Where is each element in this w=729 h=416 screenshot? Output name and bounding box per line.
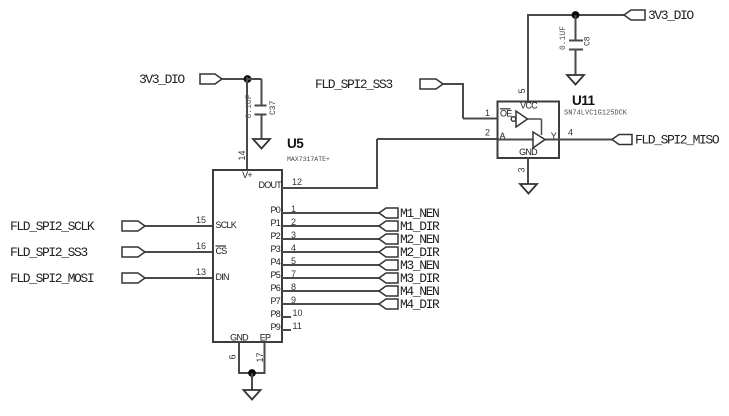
power tag 3V3_DIO (left) [139,72,222,87]
wire P4 to M3_NEN [282,264,379,266]
svg-text:SCLK: SCLK [216,220,237,230]
capacitor C37 0.1UF [245,94,278,118]
svg-text:0.1UF: 0.1UF [245,94,254,118]
svg-text:EP: EP [260,333,271,343]
wire VCC rail to 3V3_DIO tag [527,14,624,16]
wire junction to C37 [246,79,262,105]
wire 3V3_DIO tag to junction [222,78,248,80]
net tag FLD_SPI2_MISO [612,133,720,148]
node junction GND/EP [248,369,256,377]
wire FLD_SPI2_SS3 to U5 [145,251,213,253]
svg-text:U5: U5 [287,136,304,151]
svg-text:GND: GND [230,333,249,343]
wire P8 stub [282,316,291,318]
ground below C37 [253,139,270,149]
svg-text:U11: U11 [572,93,596,108]
net tag FLD_SPI2_SCLK [10,219,145,234]
svg-text:FLD_SPI2_MOSI: FLD_SPI2_MOSI [10,271,94,286]
ground below U11 [520,184,537,194]
svg-text:P6: P6 [270,283,280,293]
svg-text:9: 9 [291,295,296,305]
svg-text:15: 15 [196,215,206,225]
svg-text:2: 2 [485,128,490,138]
svg-text:FLD_SPI2_MISO: FLD_SPI2_MISO [635,133,720,148]
pin name OE (active low) [500,109,512,119]
svg-text:3V3_DIO: 3V3_DIO [139,72,185,87]
svg-text:17: 17 [255,352,265,362]
svg-text:VCC: VCC [520,101,538,111]
svg-text:MAX7317ATE+: MAX7317ATE+ [287,156,330,163]
svg-text:SN74LVC1G125DCK: SN74LVC1G125DCK [564,110,628,118]
wire GND pin 6 down [238,342,240,374]
svg-text:C37: C37 [269,100,278,115]
net tag M2_NEN [379,232,439,247]
wire P2 to M2_NEN [282,238,379,240]
wire FLD_SPI2_SS3 to U11 OE [443,84,497,119]
svg-text:P0: P0 [270,205,280,215]
net tag M1_DIR [379,219,440,234]
ground below U5 [244,390,261,400]
svg-text:11: 11 [293,321,302,331]
wire Y to FLD_SPI2_MISO [559,139,612,141]
wire U11 pin 3 GND down [527,158,529,184]
wire junction to C8 [575,15,577,40]
svg-text:3: 3 [291,230,296,240]
net tag M2_DIR [379,245,440,260]
svg-text:2: 2 [291,217,296,227]
svg-text:P3: P3 [270,244,280,254]
node junction VCC/C8 [572,11,580,19]
svg-text:12: 12 [292,177,302,187]
wire P5 to M3_DIR [282,277,379,279]
svg-text:5: 5 [291,256,296,266]
wire P0 to M1_NEN [282,212,379,214]
svg-text:1: 1 [291,204,296,214]
net tag M3_DIR [379,271,440,286]
svg-text:P1: P1 [270,218,280,228]
wire junction to ground [251,373,253,390]
wire EP pin 17 down [264,342,266,374]
svg-text:DIN: DIN [216,272,230,282]
net tag FLD_SPI2_MOSI [10,271,145,286]
svg-text:14: 14 [237,150,247,160]
wire FLD_SPI2_SCLK to U5 [145,225,213,227]
OE inverter triangle [516,111,528,127]
svg-text:CS: CS [216,246,228,256]
wire P1 to M1_DIR [282,225,379,227]
svg-text:OE: OE [500,109,512,119]
wire U11 pin 5 VCC up [527,14,529,101]
svg-text:3: 3 [517,167,527,172]
wire junction down to U5 pin 14 (V+) [246,77,248,170]
svg-text:10: 10 [293,308,303,318]
svg-text:16: 16 [196,241,206,251]
net tag FLD_SPI2_SS3 [10,245,145,260]
wire GND-EP join [238,372,266,374]
power tag 3V3_DIO (right) [624,8,694,23]
pin name CS (active low) [216,246,228,256]
svg-text:P5: P5 [270,270,280,280]
svg-text:3V3_DIO: 3V3_DIO [648,8,694,23]
net tag M4_NEN [379,284,439,299]
svg-text:6: 6 [228,354,238,359]
wire C37 to ground [261,115,263,140]
wire P3 to M2_DIR [282,251,379,253]
wire OE gate to buffer [528,119,542,135]
net tag FLD_SPI2_SS3 (top) [315,77,443,92]
wire P6 to M4_NEN [282,290,379,292]
svg-text:4: 4 [568,128,573,138]
svg-text:FLD_SPI2_SS3: FLD_SPI2_SS3 [10,245,87,260]
OE inversion bubble [511,117,516,122]
node junction 3V3_DIO/C37/V+ [244,75,252,83]
wire P9 stub [282,329,291,331]
net tag M4_DIR [379,297,440,312]
svg-text:GND: GND [519,147,538,157]
wire FLD_SPI2_MOSI to U5 [145,277,213,279]
svg-text:P7: P7 [270,296,280,306]
svg-text:P4: P4 [270,257,280,267]
svg-text:1: 1 [485,108,490,118]
buffer triangle U11 [533,132,545,148]
svg-text:M4_DIR: M4_DIR [400,297,440,312]
wire A to Y through buffer [498,139,560,141]
svg-text:0.1UF: 0.1UF [559,26,568,50]
svg-text:4: 4 [291,243,296,253]
IC U11 SN74LVC1G125DCK body [498,102,560,159]
svg-text:DOUT: DOUT [259,180,283,190]
IC U5 MAX7317ATE+ body [213,170,282,342]
svg-text:C8: C8 [584,36,593,46]
wire DOUT net U5.12 to U11.A [282,139,497,189]
svg-text:7: 7 [291,269,296,279]
svg-text:V+: V+ [242,170,252,180]
wire P7 to M4_DIR [282,303,379,305]
svg-text:8: 8 [291,282,296,292]
net tag M3_NEN [379,258,439,273]
net tag M1_NEN [379,206,439,221]
svg-text:P2: P2 [270,231,280,241]
svg-text:FLD_SPI2_SS3: FLD_SPI2_SS3 [315,77,392,92]
svg-text:5: 5 [517,88,527,93]
capacitor C8 0.1UF [559,26,593,50]
svg-text:13: 13 [196,267,206,277]
ground below C8 [567,75,584,85]
svg-text:FLD_SPI2_SCLK: FLD_SPI2_SCLK [10,219,95,234]
svg-text:P9: P9 [270,322,280,332]
svg-text:P8: P8 [270,309,280,319]
wire C8 to ground [575,50,577,76]
